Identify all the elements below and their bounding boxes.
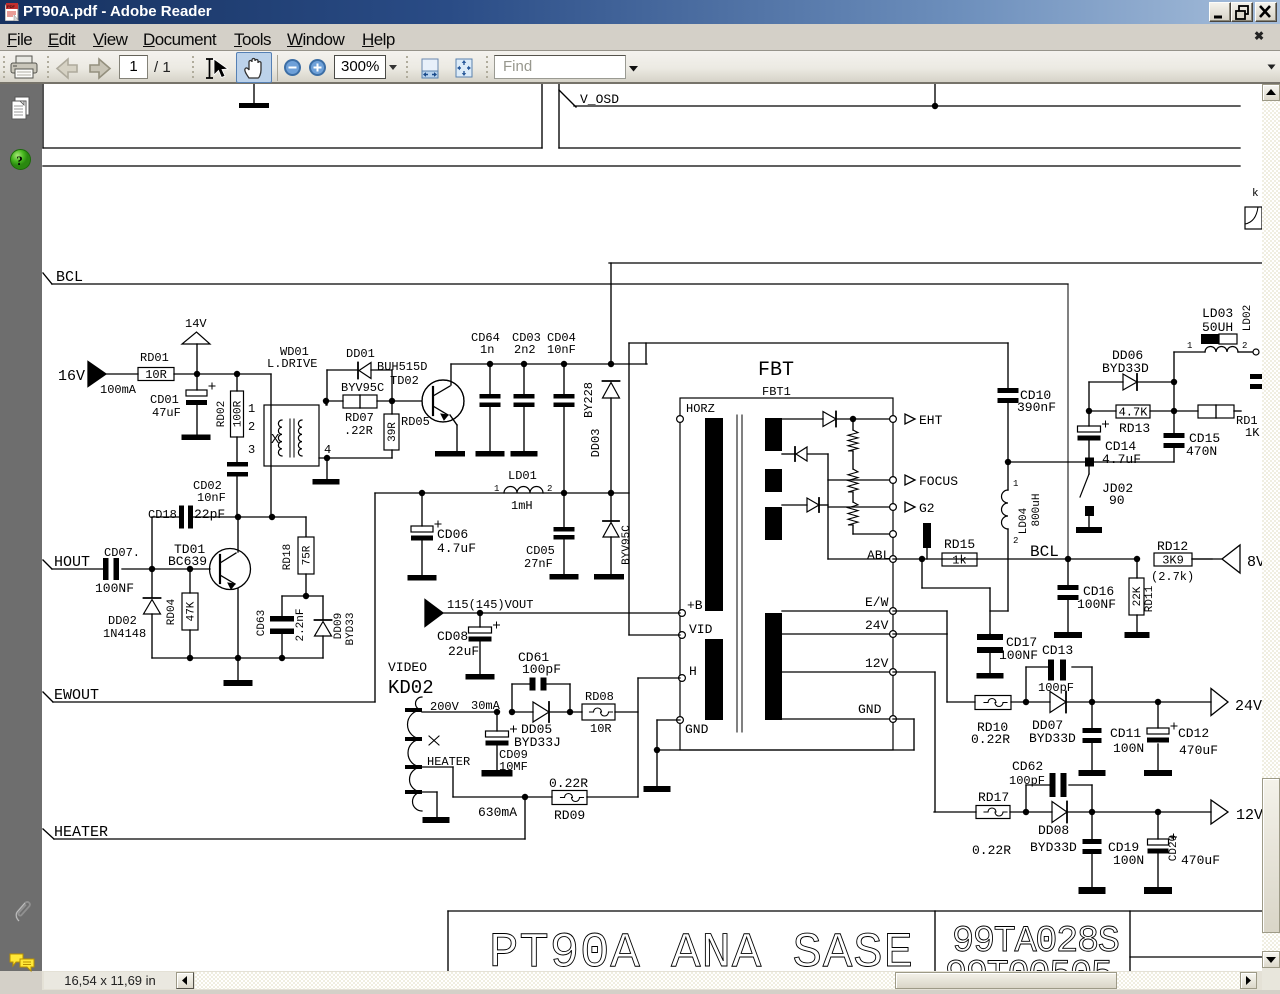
svg-text:PT90A ANA SASE: PT90A ANA SASE <box>489 925 913 971</box>
svg-text:2: 2 <box>547 484 552 494</box>
svg-text:22uF: 22uF <box>448 644 479 659</box>
svg-text:8V: 8V <box>1247 554 1262 571</box>
svg-text:.22R: .22R <box>344 424 373 438</box>
svg-text:100N: 100N <box>1113 741 1144 756</box>
svg-text:1k: 1k <box>952 554 966 568</box>
svg-text:2: 2 <box>248 420 255 434</box>
svg-text:RD05: RD05 <box>401 415 430 429</box>
svg-text:10nF: 10nF <box>197 491 226 505</box>
svg-text:BYD33: BYD33 <box>345 612 357 645</box>
svg-text:14V: 14V <box>185 317 207 331</box>
svg-text:22K: 22K <box>1132 586 1144 606</box>
svg-text:470N: 470N <box>1186 444 1217 459</box>
svg-text:470uF: 470uF <box>1181 853 1220 868</box>
svg-text:BYV95C: BYV95C <box>621 525 633 565</box>
svg-text:100NF: 100NF <box>1077 597 1116 612</box>
svg-text:CD07.: CD07. <box>104 546 140 560</box>
svg-text:BCL: BCL <box>1030 543 1059 561</box>
svg-text:24V: 24V <box>1235 698 1262 715</box>
svg-text:LD04: LD04 <box>1018 507 1030 534</box>
svg-text:10nF: 10nF <box>547 343 576 357</box>
svg-text:(2.7k): (2.7k) <box>1151 570 1194 584</box>
svg-text:RD07: RD07 <box>345 411 374 425</box>
svg-text:3: 3 <box>248 443 255 457</box>
svg-text:10MF: 10MF <box>499 760 528 774</box>
svg-text:100R: 100R <box>233 400 245 427</box>
svg-text:1n: 1n <box>480 343 494 357</box>
svg-text:CD13: CD13 <box>1042 643 1073 658</box>
svg-text:DD01: DD01 <box>346 347 375 361</box>
svg-text:4.7K: 4.7K <box>1119 406 1149 420</box>
svg-text:BYD33J: BYD33J <box>514 735 561 750</box>
svg-text:HORZ: HORZ <box>686 402 715 416</box>
svg-text:16V: 16V <box>58 368 85 385</box>
svg-text:VIDEO: VIDEO <box>388 660 427 675</box>
svg-text:24V: 24V <box>865 618 889 633</box>
svg-text:EHT: EHT <box>919 413 943 428</box>
svg-text:2n2: 2n2 <box>514 343 536 357</box>
svg-text:RD18: RD18 <box>282 544 294 570</box>
svg-text:DD03: DD03 <box>589 429 603 458</box>
svg-text:12V: 12V <box>865 656 889 671</box>
svg-text:10R: 10R <box>145 368 167 382</box>
svg-text:1: 1 <box>1013 479 1018 489</box>
svg-text:47K: 47K <box>186 601 198 621</box>
svg-text:FBT: FBT <box>758 359 794 382</box>
svg-text:RD01: RD01 <box>140 351 169 365</box>
svg-text:10R: 10R <box>590 722 612 736</box>
svg-text:100NF: 100NF <box>999 648 1038 663</box>
svg-text:LD01: LD01 <box>508 469 537 483</box>
svg-text:22pF: 22pF <box>194 507 225 522</box>
svg-text:115(145)VOUT: 115(145)VOUT <box>447 598 533 612</box>
svg-text:k: k <box>1252 188 1259 200</box>
svg-text:100pF: 100pF <box>522 662 561 677</box>
svg-text:90: 90 <box>1109 493 1125 508</box>
svg-text:1: 1 <box>494 484 499 494</box>
svg-text:BYD33D: BYD33D <box>1029 731 1076 746</box>
svg-text:DD09: DD09 <box>333 613 345 639</box>
svg-text:RD02: RD02 <box>216 401 228 427</box>
svg-text:CD62: CD62 <box>1012 759 1043 774</box>
svg-text:100pF: 100pF <box>1038 681 1074 695</box>
svg-text:L.DRIVE: L.DRIVE <box>267 357 317 371</box>
svg-text:1: 1 <box>1187 341 1192 351</box>
svg-text:RD17: RD17 <box>978 790 1009 805</box>
svg-text:G2: G2 <box>919 501 935 516</box>
svg-text:100N: 100N <box>1113 853 1144 868</box>
svg-text:800uH: 800uH <box>1031 493 1043 526</box>
svg-text:CD20: CD20 <box>1168 835 1180 861</box>
svg-text:47uF: 47uF <box>152 406 181 420</box>
svg-text:75R: 75R <box>302 545 314 565</box>
svg-text:BYD33D: BYD33D <box>1030 840 1077 855</box>
svg-text:39R: 39R <box>387 422 399 442</box>
svg-text:GND: GND <box>858 702 882 717</box>
svg-text:BYD33D: BYD33D <box>1102 361 1149 376</box>
svg-text:1: 1 <box>248 402 255 416</box>
svg-text:CD11: CD11 <box>1110 726 1141 741</box>
svg-text:0.22R: 0.22R <box>549 776 588 791</box>
svg-text:12V: 12V <box>1236 807 1262 824</box>
svg-text:RD11: RD11 <box>1144 585 1156 612</box>
svg-text:1mH: 1mH <box>511 499 533 513</box>
svg-text:PDF: PDF <box>7 4 16 9</box>
svg-text:FBT1: FBT1 <box>762 385 791 399</box>
svg-text:CD18: CD18 <box>148 508 177 522</box>
svg-text:LD02: LD02 <box>1242 305 1254 331</box>
svg-text:CD01: CD01 <box>150 393 179 407</box>
svg-text:4.7uF: 4.7uF <box>437 541 476 556</box>
svg-text:50UH: 50UH <box>1202 320 1233 335</box>
svg-text:E/W: E/W <box>865 595 889 610</box>
svg-text:RD13: RD13 <box>1119 421 1150 436</box>
svg-text:DD02: DD02 <box>108 614 137 628</box>
svg-text:BY228: BY228 <box>582 382 596 418</box>
svg-text:DD08: DD08 <box>1038 823 1069 838</box>
svg-text:100mA: 100mA <box>100 383 137 397</box>
svg-text:CD06: CD06 <box>437 527 468 542</box>
svg-text:2: 2 <box>1013 536 1018 546</box>
svg-text:CD12: CD12 <box>1178 726 1209 741</box>
svg-text:2: 2 <box>1242 341 1247 351</box>
svg-text:ABL: ABL <box>867 548 890 563</box>
svg-text:2.2nF: 2.2nF <box>295 608 307 641</box>
svg-text:BUH515D: BUH515D <box>377 360 427 374</box>
svg-text:99T00505: 99T00505 <box>945 955 1113 971</box>
svg-text:KD02: KD02 <box>388 677 434 699</box>
svg-text:0.22R: 0.22R <box>971 732 1010 747</box>
svg-text:BYV95C: BYV95C <box>341 381 384 395</box>
svg-text:+B: +B <box>687 598 703 613</box>
svg-text:TD02: TD02 <box>390 374 419 388</box>
svg-text:V_OSD: V_OSD <box>580 92 619 107</box>
svg-text:CD05: CD05 <box>526 544 555 558</box>
svg-text:390nF: 390nF <box>1017 400 1056 415</box>
svg-text:BC639: BC639 <box>168 554 207 569</box>
svg-text:RD15: RD15 <box>944 537 975 552</box>
svg-text:VID: VID <box>689 622 713 637</box>
svg-text:630mA: 630mA <box>478 805 517 820</box>
svg-text:RD08: RD08 <box>585 690 614 704</box>
svg-text:100pF: 100pF <box>1009 774 1045 788</box>
svg-text:4.7uF: 4.7uF <box>1102 452 1141 467</box>
svg-text:?: ? <box>16 153 23 168</box>
svg-text:RD09: RD09 <box>554 808 585 823</box>
svg-text:27nF: 27nF <box>524 557 553 571</box>
svg-text:FOCUS: FOCUS <box>919 474 958 489</box>
svg-text:LD03: LD03 <box>1202 306 1233 321</box>
svg-text:RD04: RD04 <box>166 598 178 625</box>
svg-text:H: H <box>689 664 697 679</box>
svg-text:1K: 1K <box>1245 426 1260 440</box>
svg-text:470uF: 470uF <box>1179 743 1218 758</box>
svg-text:RD12: RD12 <box>1157 539 1188 554</box>
svg-text:CD63: CD63 <box>256 610 268 636</box>
svg-text:0.22R: 0.22R <box>972 843 1011 858</box>
svg-text:GND: GND <box>685 722 709 737</box>
svg-text:CD08: CD08 <box>437 629 468 644</box>
svg-text:1N4148: 1N4148 <box>103 627 146 641</box>
svg-text:3K9: 3K9 <box>1162 554 1184 568</box>
svg-text:100NF: 100NF <box>95 581 134 596</box>
